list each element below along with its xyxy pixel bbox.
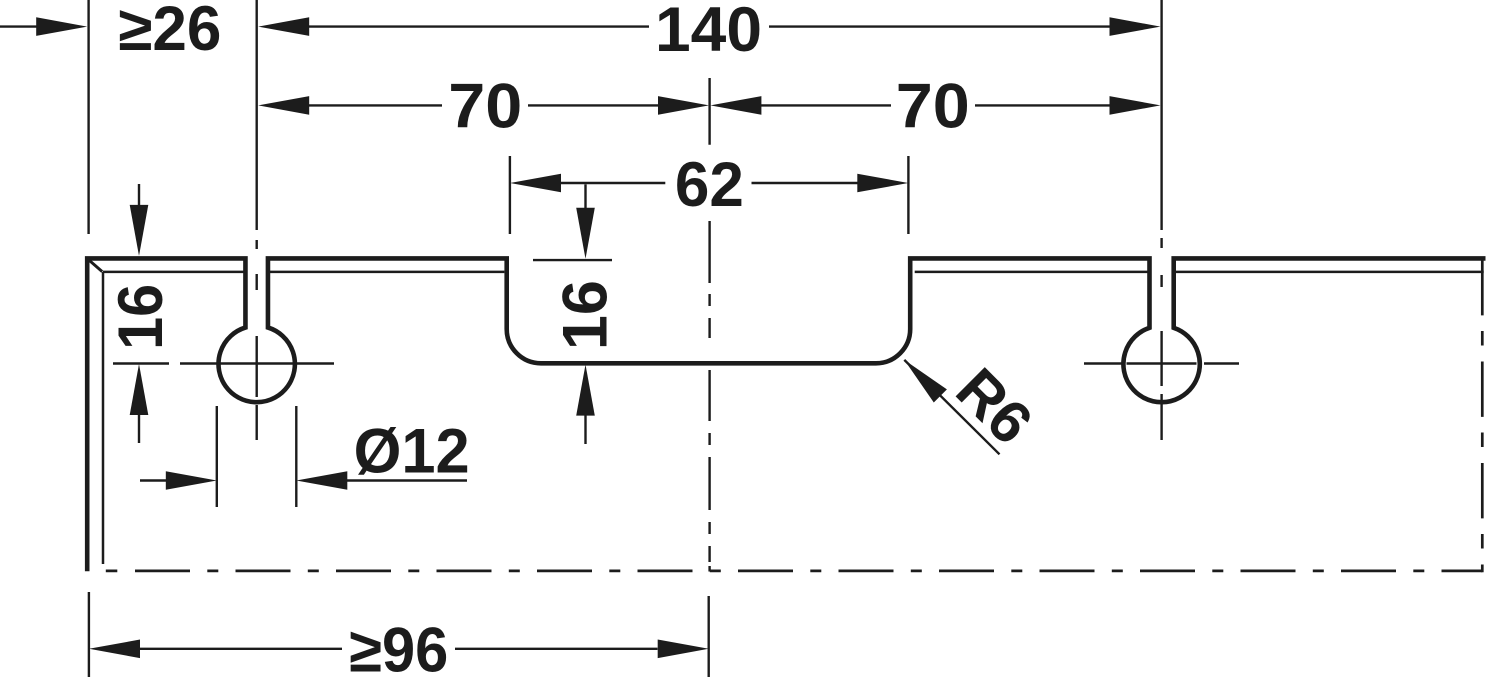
svg-text:16: 16 [550, 280, 620, 350]
svg-text:140: 140 [655, 0, 762, 65]
svg-text:62: 62 [675, 150, 744, 220]
svg-text:16: 16 [106, 284, 176, 350]
svg-text:70: 70 [448, 71, 522, 141]
svg-text:≥26: ≥26 [118, 0, 221, 64]
svg-text:Ø12: Ø12 [354, 417, 470, 487]
svg-text:70: 70 [896, 71, 970, 141]
svg-text:≥96: ≥96 [349, 616, 448, 677]
